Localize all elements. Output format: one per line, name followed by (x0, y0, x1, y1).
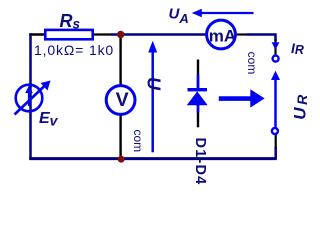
svg-text:com: com (131, 129, 145, 152)
diode D1-D4 leads (197, 75, 200, 113)
wire lower terminal stub (275, 134, 277, 149)
wire Rs to node A (93, 33, 113, 35)
wire left rail (29, 33, 32, 159)
wire mA meter to right corner (235, 33, 250, 35)
svg-text:com: com (245, 52, 259, 75)
resistor Rs (45, 30, 92, 39)
wire right bottom corner (274, 147, 277, 159)
annotation arrow UA (197, 12, 254, 14)
terminal upper (to external R) (273, 56, 279, 62)
wire top-left from left rail to Rs (29, 33, 46, 35)
node A junction dot (117, 31, 124, 38)
wire right top corner (247, 33, 276, 41)
source Ev adjustment arrow (15, 85, 47, 115)
wire diode cathode stub (197, 112, 199, 128)
annotation arrow U (across diode) (151, 50, 154, 152)
voltmeter V (106, 86, 135, 115)
svg-text:U: U (144, 77, 164, 91)
svg-text:UR: UR (291, 92, 310, 119)
annotation arrow to R terminals (219, 96, 251, 101)
wire node A to mA meter (111, 33, 208, 36)
wire right rail upper stub (274, 39, 276, 55)
svg-text:mA: mA (209, 27, 236, 46)
wire voltmeter branch upper (119, 35, 121, 87)
source Ev circle (16, 85, 43, 112)
svg-text:Ev: Ev (39, 110, 59, 129)
wire diode anode stub (197, 60, 199, 76)
annotation arrow UR (up) (274, 78, 277, 127)
diode D1-D4 cathode bar (188, 88, 208, 91)
diode D1-D4 triangle (187, 91, 208, 105)
node B junction dot (118, 156, 125, 163)
svg-text:V: V (116, 89, 129, 111)
svg-text:IR: IR (291, 40, 304, 57)
ammeter mA (207, 20, 236, 49)
terminal lower (to external R) (272, 128, 278, 134)
svg-text:1,0kΩ= 1k0: 1,0kΩ= 1k0 (34, 42, 114, 58)
wire voltmeter branch lower (119, 114, 121, 158)
svg-text:D1-D4: D1-D4 (192, 138, 208, 185)
source Ev internal arrow (28, 91, 30, 107)
wire bottom rail (29, 157, 277, 160)
arrow IR (current into upper terminal) (272, 42, 280, 50)
